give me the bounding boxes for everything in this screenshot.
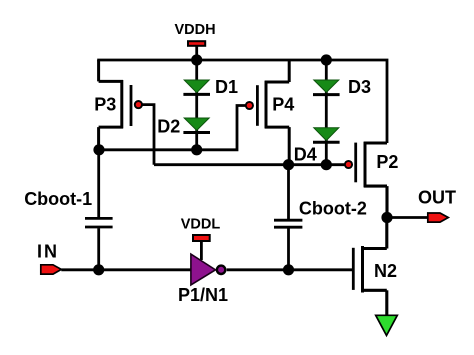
diode D4 bbox=[313, 128, 340, 142]
power bar VDDL bbox=[193, 235, 210, 241]
svg-text:D4: D4 bbox=[294, 144, 317, 164]
svg-text:P3: P3 bbox=[94, 95, 116, 115]
junction node N2 gate bbox=[283, 264, 294, 275]
svg-text:P2: P2 bbox=[376, 152, 398, 172]
junction node rail-D1 bbox=[191, 54, 202, 65]
wire P3 gate to D4 node row bbox=[142, 105, 345, 165]
diode D3 bbox=[313, 80, 340, 95]
junction node P3 drain bbox=[93, 144, 104, 155]
transistor P3 bbox=[99, 60, 142, 150]
junction node D2 bottom bbox=[191, 144, 202, 155]
svg-text:N2: N2 bbox=[374, 261, 397, 281]
junction node IN bbox=[93, 264, 104, 275]
power bar VDDH bbox=[188, 41, 205, 46]
inverter P1/N1 bbox=[191, 254, 225, 285]
svg-text:D1: D1 bbox=[215, 77, 238, 97]
wire top rail VDDH bbox=[97, 60, 387, 143]
wire D1 D2 chain bbox=[195, 60, 198, 150]
svg-text:D3: D3 bbox=[348, 77, 371, 97]
svg-text:Cboot-1: Cboot-1 bbox=[24, 189, 92, 209]
svg-text:VDDL: VDDL bbox=[181, 217, 221, 233]
junction node OUT bbox=[381, 212, 392, 223]
capacitor Cboot-2 bbox=[274, 165, 302, 270]
port IN arrow bbox=[41, 265, 62, 274]
svg-text:IN: IN bbox=[37, 242, 59, 262]
wire VDDL stub bbox=[200, 242, 203, 260]
wire OUT bbox=[387, 216, 428, 219]
junction node rail-D3 bbox=[321, 54, 332, 65]
wire VDDH stub bbox=[195, 46, 198, 61]
diode D2 bbox=[183, 118, 210, 133]
capacitor Cboot-1 bbox=[85, 150, 113, 270]
port OUT arrow bbox=[428, 213, 449, 222]
junction node Cboot-2 top bbox=[283, 159, 294, 170]
transistor P2 bbox=[345, 142, 387, 218]
wire D3 D4 chain bbox=[325, 60, 328, 165]
transistor N2 bbox=[353, 218, 387, 316]
svg-text:VDDH: VDDH bbox=[174, 22, 215, 38]
wire inverter output to N2 gate bbox=[227, 268, 354, 271]
svg-text:OUT: OUT bbox=[418, 187, 456, 207]
ground symbol bbox=[376, 315, 398, 335]
svg-text:P1/N1: P1/N1 bbox=[178, 285, 228, 305]
svg-text:Cboot-2: Cboot-2 bbox=[299, 199, 367, 219]
svg-text:D2: D2 bbox=[157, 117, 180, 137]
junction node D4 bottom bbox=[321, 159, 332, 170]
diode D1 bbox=[183, 80, 210, 94]
wire P3 drain row to P4 gate bbox=[99, 106, 246, 150]
svg-text:P4: P4 bbox=[272, 95, 294, 115]
transistor P4 bbox=[246, 59, 289, 165]
wire IN to inverter bbox=[61, 268, 191, 271]
